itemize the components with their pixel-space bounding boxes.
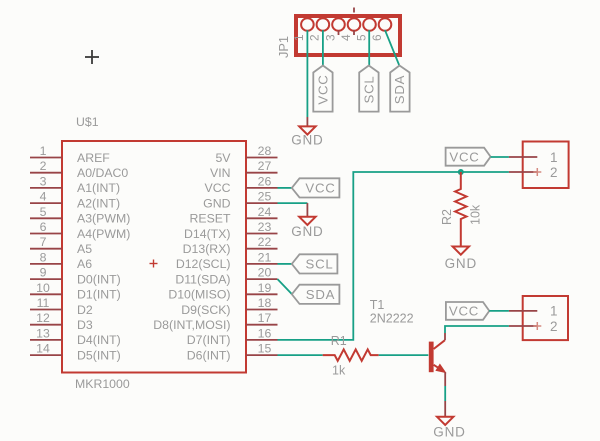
US1 pin 18 D9(SCK)	[181, 296, 277, 317]
svg-text:6: 6	[370, 34, 384, 41]
US1 pin 24 RESET	[190, 205, 278, 226]
svg-text:VCC: VCC	[449, 304, 479, 319]
svg-text:3: 3	[40, 174, 47, 188]
US1 pin 7 A5	[30, 235, 92, 256]
svg-text:VCC: VCC	[205, 181, 231, 195]
svg-text:14: 14	[36, 342, 50, 356]
JP1 pin 5	[354, 18, 376, 41]
svg-text:1: 1	[292, 34, 306, 41]
net label VCC (connector J2)	[446, 302, 489, 320]
svg-text:5: 5	[40, 205, 47, 219]
US1 pin 19 D10(MISO)	[168, 281, 277, 302]
svg-text:GND: GND	[445, 256, 477, 271]
US1 pin 15 D6(INT)	[187, 342, 278, 363]
svg-text:2: 2	[550, 165, 558, 180]
svg-text:28: 28	[258, 144, 272, 158]
svg-text:5: 5	[354, 34, 368, 41]
svg-text:SDA: SDA	[306, 287, 336, 302]
US1 pin 4 A2(INT)	[30, 190, 120, 211]
svg-text:D5(INT): D5(INT)	[77, 348, 121, 362]
JP1 pin 4 stub	[353, 8, 355, 36]
JP1 pin 2	[308, 18, 330, 41]
origin cross marker	[85, 50, 99, 64]
R1 value 1k	[332, 364, 346, 378]
svg-text:GND: GND	[203, 196, 230, 210]
svg-text:SCL: SCL	[305, 257, 333, 272]
svg-text:15: 15	[258, 342, 272, 356]
svg-text:D12(SCL): D12(SCL)	[176, 257, 231, 271]
svg-text:A6: A6	[77, 257, 92, 271]
J2 pin 2	[509, 319, 558, 334]
svg-text:10: 10	[36, 281, 50, 295]
resistor R2	[455, 172, 466, 247]
svg-text:U$1: U$1	[76, 115, 99, 129]
net label VCC (connector J1)	[446, 148, 491, 166]
wire US1 pin20 to SDA tag	[278, 279, 293, 294]
svg-text:24: 24	[258, 205, 272, 219]
svg-text:21: 21	[258, 250, 272, 264]
T1 value 2N2222	[370, 312, 414, 326]
wire R1 to T1 base	[379, 354, 429, 356]
US1 pin 12 D3	[30, 311, 93, 332]
svg-text:A0/DAC0: A0/DAC0	[77, 166, 128, 180]
US1 pin 14 D5(INT)	[30, 342, 121, 363]
svg-text:18: 18	[258, 296, 272, 310]
svg-text:D3: D3	[77, 318, 93, 332]
T1 label	[370, 298, 385, 312]
wire US1 pin21 to SCL tag	[278, 263, 293, 265]
svg-text:12: 12	[36, 311, 50, 325]
svg-text:A4(PWM): A4(PWM)	[77, 227, 130, 241]
wire US1 pin15 to R1	[278, 354, 323, 356]
svg-text:A3(PWM): A3(PWM)	[77, 212, 130, 226]
svg-text:VCC: VCC	[316, 74, 331, 104]
svg-text:23: 23	[258, 220, 272, 234]
JP1 pin 3	[323, 18, 345, 41]
svg-text:10k: 10k	[469, 204, 483, 225]
net label SDA (vertical, JP1 pin6)	[390, 66, 409, 112]
svg-text:D4(INT): D4(INT)	[77, 333, 121, 347]
ground GND at pin 25	[291, 203, 323, 239]
US1 pin 3 A1(INT)	[30, 174, 120, 195]
wire T1 emitter to GND	[444, 372, 446, 401]
transistor T1 2N2222	[429, 340, 445, 372]
J1 pin 1	[509, 150, 558, 165]
svg-text:A5: A5	[77, 242, 92, 256]
net label VCC (pin 26)	[292, 178, 340, 197]
svg-text:A1(INT): A1(INT)	[77, 181, 120, 195]
svg-text:7: 7	[40, 235, 47, 249]
wire US1 pin26 to VCC tag	[278, 187, 293, 189]
MKR1000 label	[75, 377, 130, 391]
JP1 pin 4	[339, 18, 361, 41]
JP1 pin 3 stub	[338, 30, 340, 35]
svg-text:11: 11	[37, 296, 50, 310]
svg-text:A2(INT): A2(INT)	[77, 196, 120, 210]
US1 pin 17 D8(INT,MOSI)	[153, 311, 277, 332]
US1 pin 26 VCC	[205, 174, 278, 195]
svg-text:1: 1	[40, 144, 47, 158]
US1 pin 27 VIN	[210, 159, 278, 180]
US1 pin 23 D14(TX)	[184, 220, 277, 241]
US1 pin 20 D11(SDA)	[175, 266, 277, 287]
svg-text:2: 2	[550, 319, 558, 334]
svg-text:2: 2	[308, 34, 322, 41]
svg-text:27: 27	[258, 159, 272, 173]
US1 pin 1 AREF	[30, 144, 110, 165]
JP1 label	[276, 36, 291, 58]
net label VCC (vertical, JP1 pin2)	[313, 66, 332, 112]
svg-text:D7(INT): D7(INT)	[187, 333, 231, 347]
svg-text:D2: D2	[77, 303, 93, 317]
US1 pin 21 D12(SCL)	[176, 250, 278, 271]
ground GND below R2	[445, 247, 477, 272]
svg-text:1: 1	[550, 150, 558, 165]
svg-text:1: 1	[550, 304, 558, 319]
US1 pin 13 D4(INT)	[30, 326, 121, 347]
wire US1 pin25 to GND	[278, 202, 308, 204]
svg-text:MKR1000: MKR1000	[75, 377, 130, 391]
net label SDA (pin 20)	[292, 285, 340, 304]
svg-text:GND: GND	[433, 425, 465, 440]
JP1 pin 1	[292, 18, 314, 41]
svg-text:5V: 5V	[215, 151, 231, 165]
svg-text:T1: T1	[370, 298, 385, 312]
svg-text:SCL: SCL	[362, 75, 377, 103]
svg-text:D10(MISO): D10(MISO)	[168, 288, 230, 302]
US1 pin 10 D1(INT)	[30, 281, 121, 302]
US1 pin 25 GND	[203, 190, 277, 211]
US1 pin 5 A3(PWM)	[30, 205, 130, 226]
svg-text:6: 6	[40, 220, 47, 234]
J2 pin 1	[509, 304, 558, 319]
svg-text:GND: GND	[291, 133, 323, 148]
resistor R1	[323, 349, 379, 360]
net label SCL (pin 21)	[292, 254, 338, 273]
US1 pin 22 D13(RX)	[183, 235, 278, 256]
wire JP1 pin1 to GND	[306, 30, 308, 117]
wire T1 collector to J2 pin2	[445, 326, 509, 340]
svg-text:19: 19	[258, 281, 272, 295]
US1 pin 6 A4(PWM)	[30, 220, 130, 241]
wire VCC tag to J1 pin1	[491, 156, 509, 158]
svg-text:22: 22	[258, 235, 272, 249]
svg-text:3: 3	[323, 34, 337, 41]
svg-text:D0(INT): D0(INT)	[77, 272, 121, 286]
svg-text:D14(TX): D14(TX)	[184, 227, 230, 241]
R2 label	[440, 209, 454, 225]
svg-text:VCC: VCC	[449, 149, 479, 164]
J1 pin 2	[509, 165, 558, 180]
svg-text:R1: R1	[331, 334, 347, 348]
ground GND at JP1 pin1	[291, 117, 323, 148]
US1 pin 28 5V	[215, 144, 277, 165]
svg-text:AREF: AREF	[77, 151, 110, 165]
svg-text:2N2222: 2N2222	[370, 312, 414, 326]
net label SCL (vertical, JP1 pin5)	[359, 66, 378, 112]
svg-text:D11(SDA): D11(SDA)	[175, 272, 230, 286]
svg-text:26: 26	[258, 174, 272, 188]
IC US1 body	[62, 141, 246, 373]
wire JP1 pin6 to SDA tag	[385, 30, 400, 66]
US1 pin 11 D2	[30, 296, 93, 317]
svg-text:D9(SCK): D9(SCK)	[181, 303, 230, 317]
US1 pin 16 D7(INT)	[187, 326, 278, 347]
svg-text:D6(INT): D6(INT)	[187, 348, 231, 362]
US1 pin 9 D0(INT)	[30, 266, 121, 287]
svg-text:20: 20	[258, 266, 272, 280]
svg-text:25: 25	[258, 190, 272, 204]
ground GND below T1	[433, 401, 465, 440]
wire JP1 pin2 to VCC tag	[322, 30, 324, 66]
svg-text:GND: GND	[291, 224, 323, 239]
svg-text:R2: R2	[440, 209, 454, 225]
svg-text:16: 16	[258, 326, 272, 340]
connector J1 box	[523, 142, 569, 189]
svg-text:13: 13	[36, 326, 50, 340]
svg-text:17: 17	[258, 311, 272, 325]
svg-text:4: 4	[339, 34, 353, 41]
US1 origin cross	[150, 260, 158, 268]
connector J2 box	[523, 296, 568, 340]
R2 value 10k	[469, 204, 483, 225]
svg-text:D8(INT,MOSI): D8(INT,MOSI)	[153, 318, 230, 332]
svg-text:2: 2	[40, 159, 47, 173]
wire VCC tag to J2 pin1	[489, 310, 509, 312]
US1 pin 2 A0/DAC0	[30, 159, 128, 180]
header JP1 box	[296, 16, 400, 55]
svg-text:9: 9	[40, 266, 47, 280]
svg-text:1k: 1k	[332, 364, 346, 378]
svg-text:SDA: SDA	[392, 75, 407, 105]
svg-text:4: 4	[40, 190, 47, 204]
wire JP1 pin5 to SCL tag	[368, 30, 370, 66]
JP1 pin 6	[370, 18, 392, 41]
svg-text:8: 8	[40, 250, 47, 264]
svg-text:VIN: VIN	[210, 166, 231, 180]
junction node at R2 top	[458, 169, 464, 175]
US1 pin 8 A6	[30, 250, 92, 271]
US1 label	[76, 115, 99, 129]
svg-text:D13(RX): D13(RX)	[183, 242, 231, 256]
wire US1 pin16 to connector J1 pin2	[278, 172, 509, 340]
R1 label	[331, 334, 347, 348]
svg-text:RESET: RESET	[190, 212, 231, 226]
svg-text:JP1: JP1	[276, 36, 291, 58]
svg-text:D1(INT): D1(INT)	[77, 288, 121, 302]
svg-text:VCC: VCC	[305, 181, 335, 196]
